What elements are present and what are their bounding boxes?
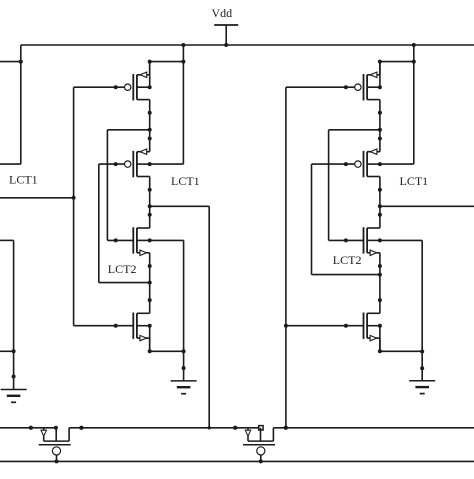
svg-text:LCT1: LCT1 xyxy=(9,172,38,186)
node stage2 Vdd rail junction xyxy=(412,43,416,47)
wire M6 bulk to Vdd drop xyxy=(380,163,414,165)
wire node2 (M2 drain - M3 drain, output) xyxy=(149,190,151,215)
transistor M6 (PMOS, second, LCT1 stage2) xyxy=(312,137,382,192)
wire top Vdd rail xyxy=(21,44,474,46)
wire M4 source to ground drop xyxy=(150,350,184,352)
wire bottom gate rail xyxy=(0,460,474,462)
wire node1' (M5 drain - M6 source) xyxy=(379,113,381,139)
node stage1 output to bus junction xyxy=(208,426,211,429)
wire stage2 gate bus (M5 gate down to pass bus) xyxy=(285,87,287,428)
wire node1' tap to M7 gate xyxy=(329,130,380,241)
wire node3 (M3 source - M4 drain) xyxy=(149,266,151,300)
node Q1 bulk terminal xyxy=(54,426,58,430)
node Q2 bulk terminal (square marker) xyxy=(259,426,263,430)
wire stage1 output to pass gate bus xyxy=(150,206,210,427)
wire stage1 gate bus (M1 gate down to M4 gate) xyxy=(73,87,75,326)
node Q1 left terminal xyxy=(29,426,33,430)
wire stage0 M4 source to ground drop xyxy=(0,350,14,352)
wire node2' (M6 drain - M7 drain, output) xyxy=(379,190,381,215)
Vdd power symbol xyxy=(214,25,238,45)
transistor M2 (PMOS, second, LCT1 stage1) xyxy=(99,137,152,192)
wire stage0 M3 bulk to ground drop xyxy=(0,240,14,389)
svg-text:LCT2: LCT2 xyxy=(108,262,137,276)
node stage2 gate bus to pass bus junction xyxy=(284,426,288,430)
wire pass bus segment B xyxy=(69,427,261,429)
wire node3 tap to M2 gate xyxy=(99,164,150,283)
wire pass bus segment C xyxy=(273,427,474,429)
Vdd label xyxy=(212,6,233,20)
wire node1 tap to M3 gate xyxy=(107,130,149,241)
node node1 tap junction xyxy=(148,128,152,132)
label LCT1 stage2 xyxy=(400,174,429,188)
node Q1 right terminal xyxy=(79,426,83,430)
wire stage1 ground drop xyxy=(183,240,185,381)
wire stage1 Vdd drop xyxy=(182,45,184,164)
wire M3 bulk to ground drop xyxy=(150,239,184,241)
ground GND2 xyxy=(409,366,435,393)
wire stage2 Vdd drop xyxy=(413,45,415,164)
wire M2 bulk to Vdd drop xyxy=(150,163,184,165)
wire stage0 M1 source to rail drop xyxy=(0,61,21,63)
node stage0 ground junction xyxy=(12,349,16,353)
node stage0 source-wire junction xyxy=(19,60,23,64)
transistor Q2 (pass PMOS, right) xyxy=(233,426,287,464)
transistor M8 (NMOS, bottom, LCT2 stage2) xyxy=(286,298,382,353)
wire node3' (M7 source - M8 drain) xyxy=(379,266,381,300)
wire M7 bulk to ground drop xyxy=(380,239,422,241)
node stage1 Vdd rail junction xyxy=(181,43,185,47)
node node3 tap junction xyxy=(148,281,152,285)
wire stage0 Vdd drop (rail corner down to M2 bulk level, exits left) xyxy=(0,45,21,164)
wire M5 source to Vdd drop xyxy=(380,61,414,63)
svg-text:Vdd: Vdd xyxy=(212,6,233,20)
node output tap junction stage1 xyxy=(148,204,152,208)
node Vdd junction on rail xyxy=(224,43,228,47)
transistor M7 (NMOS, third, LCT2 stage2) xyxy=(329,213,382,268)
node Q2 left terminal xyxy=(233,426,237,430)
node stage1 ground junction xyxy=(182,349,186,353)
transistor Q1 (pass PMOS, left) xyxy=(29,426,83,464)
label LCT2 stage2 xyxy=(333,253,362,267)
node output tap junction stage2 xyxy=(378,204,382,208)
wire node3' tap to M6 gate xyxy=(312,164,380,275)
node stage1 source-wire junction xyxy=(181,60,185,64)
label LCT2 stage1 xyxy=(108,262,137,276)
node node1' tap junction xyxy=(378,128,382,132)
label LCT1 stage0 xyxy=(9,172,38,186)
transistor M1 (PMOS, top, LCT1 stage1) xyxy=(74,60,152,115)
wire node1 (M1 drain - M2 source) xyxy=(149,113,151,139)
transistor M4 (NMOS, bottom, LCT2 stage1) xyxy=(74,298,152,353)
wire M8 source to ground drop xyxy=(380,350,422,352)
node stage2 M8 gate junction xyxy=(284,324,288,328)
transistor M5 (PMOS, top, LCT1 stage2) xyxy=(286,60,382,115)
node node3' tap junction xyxy=(378,273,382,277)
wire stage2 ground drop xyxy=(421,240,423,380)
wire M1 source to Vdd drop xyxy=(150,61,184,63)
transistor M3 (NMOS, third, LCT2 stage1) xyxy=(107,213,151,268)
svg-text:LCT2: LCT2 xyxy=(333,253,362,267)
label LCT1 stage1 xyxy=(171,174,200,188)
wire stage1 input (from previous stage output) xyxy=(0,197,74,199)
wire stage2 output (exits right) xyxy=(380,205,474,207)
node stage2 source-wire junction xyxy=(412,60,416,64)
svg-text:LCT1: LCT1 xyxy=(400,174,429,188)
node stage1 input junction xyxy=(72,196,76,200)
node stage2 ground junction xyxy=(420,350,424,354)
svg-text:LCT1: LCT1 xyxy=(171,174,200,188)
ground GND0 xyxy=(1,375,27,403)
ground GND1 xyxy=(171,366,197,394)
wire pass bus segment A xyxy=(0,427,56,429)
